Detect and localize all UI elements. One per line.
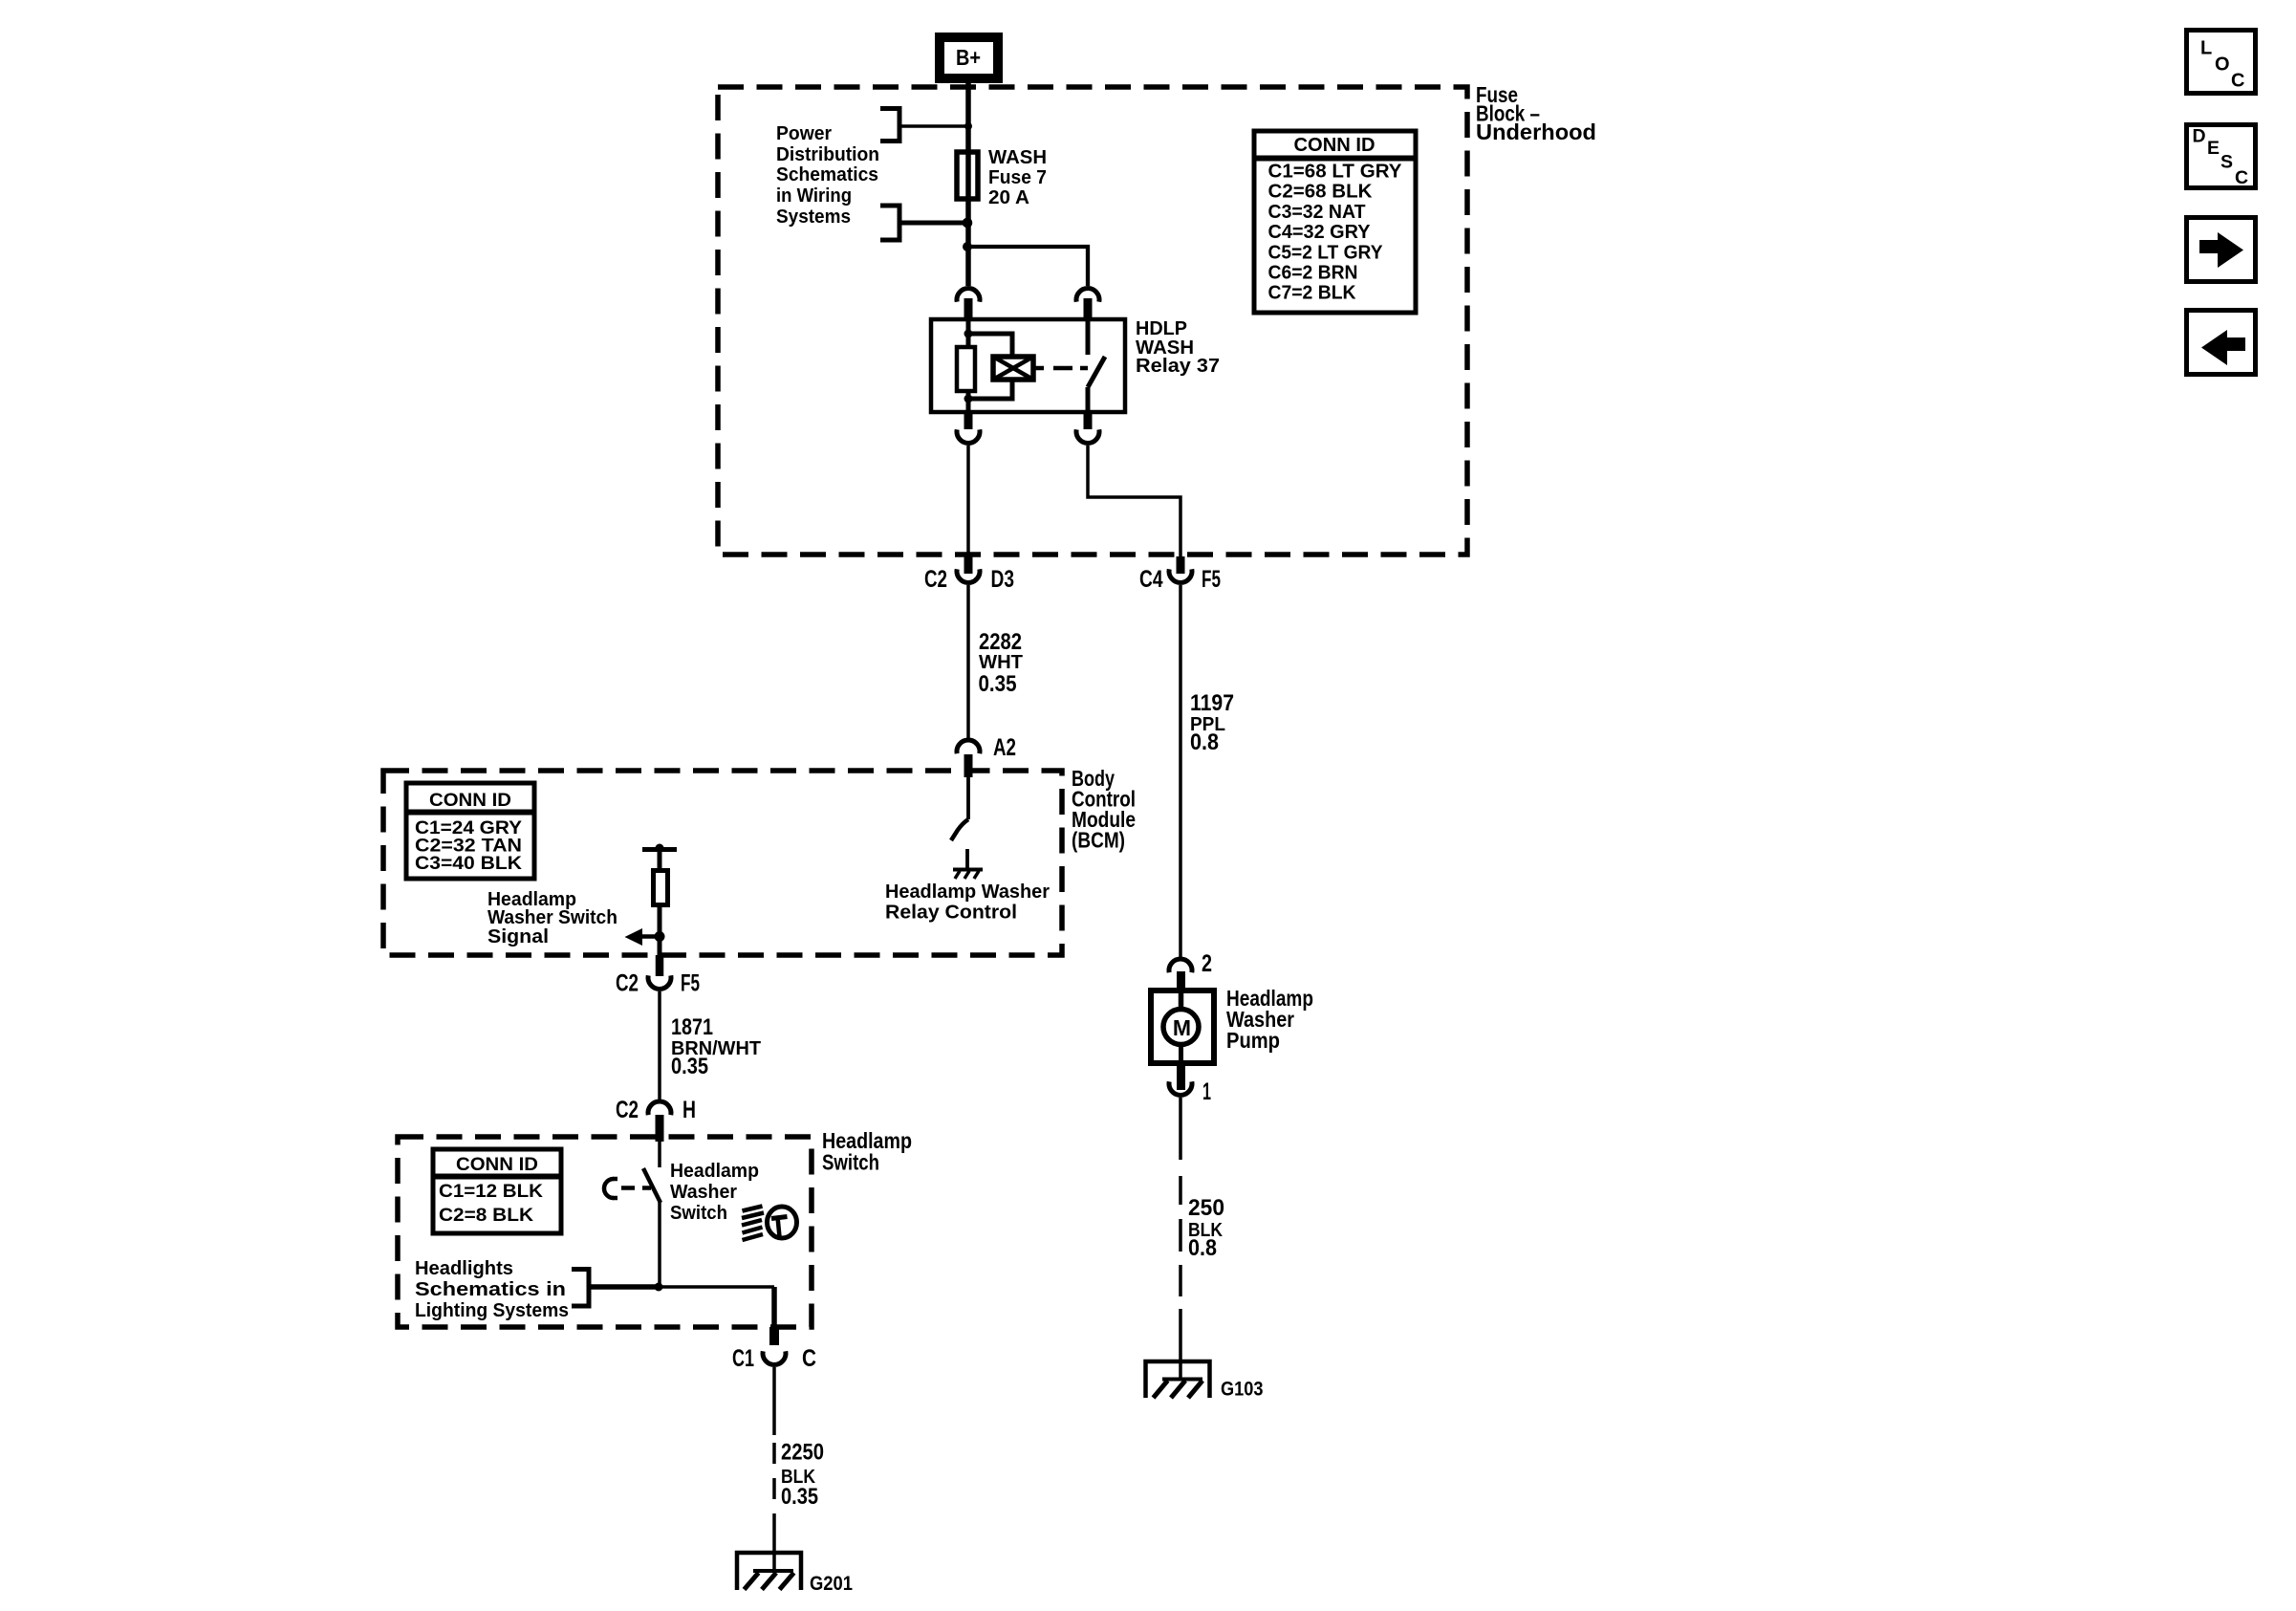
svg-text:C: C [802,1345,816,1372]
svg-text:WHT: WHT [979,651,1023,673]
svg-text:C2: C2 [616,970,639,997]
svg-text:Underhood: Underhood [1476,120,1596,144]
svg-text:CONN ID: CONN ID [1294,134,1375,156]
svg-text:C: C [2231,71,2244,92]
svg-text:F5: F5 [681,970,700,997]
svg-text:1: 1 [1202,1078,1211,1105]
svg-text:Headlamp: Headlamp [670,1160,759,1182]
svg-text:D3: D3 [991,566,1015,593]
svg-text:Lighting Systems: Lighting Systems [415,1299,569,1321]
svg-text:C3=40 BLK: C3=40 BLK [415,853,522,874]
svg-text:WASH: WASH [988,146,1047,168]
svg-text:Pump: Pump [1226,1028,1280,1053]
svg-text:Relay Control: Relay Control [885,902,1017,924]
svg-text:D: D [2193,126,2206,147]
svg-text:C2=8 BLK: C2=8 BLK [439,1205,533,1226]
svg-text:Schematics in: Schematics in [415,1278,566,1300]
svg-text:20 A: 20 A [988,186,1029,208]
svg-text:1871: 1871 [671,1014,713,1040]
svg-text:G103: G103 [1221,1379,1264,1401]
svg-text:1197: 1197 [1190,690,1234,716]
svg-text:Power: Power [776,122,832,144]
svg-text:C: C [2235,167,2248,188]
svg-text:Schematics: Schematics [776,163,878,185]
svg-text:Washer: Washer [670,1181,737,1203]
svg-text:O: O [2215,54,2230,76]
svg-text:2250: 2250 [781,1440,824,1466]
svg-text:0.8: 0.8 [1190,729,1219,755]
svg-text:Fuse 7: Fuse 7 [988,166,1047,188]
svg-text:F5: F5 [1202,566,1221,593]
svg-text:L: L [2200,38,2212,59]
svg-text:C3=32 NAT: C3=32 NAT [1268,201,1366,223]
svg-text:H: H [682,1097,696,1123]
svg-text:C2: C2 [924,566,947,593]
svg-text:C6=2 BRN: C6=2 BRN [1268,262,1358,284]
svg-text:CONN ID: CONN ID [456,1154,538,1175]
svg-text:250: 250 [1188,1195,1224,1221]
svg-text:C1: C1 [732,1345,754,1372]
svg-text:C4=32 GRY: C4=32 GRY [1268,221,1371,243]
svg-text:2: 2 [1202,950,1212,977]
svg-text:C1=68 LT GRY: C1=68 LT GRY [1268,161,1402,183]
svg-text:C1=12 BLK: C1=12 BLK [439,1181,543,1202]
svg-text:C5=2 LT GRY: C5=2 LT GRY [1268,241,1383,263]
svg-text:Headlamp Washer: Headlamp Washer [885,881,1050,903]
svg-text:C2=68 BLK: C2=68 BLK [1268,181,1373,203]
svg-text:Distribution: Distribution [776,143,879,165]
svg-text:M: M [1173,1015,1191,1040]
svg-text:0.35: 0.35 [979,671,1017,697]
svg-text:C7=2 BLK: C7=2 BLK [1268,282,1356,304]
svg-text:Systems: Systems [776,206,851,228]
svg-text:E: E [2207,138,2220,159]
svg-text:Headlights: Headlights [415,1257,513,1279]
svg-text:A2: A2 [993,734,1016,761]
svg-text:C4: C4 [1139,566,1163,593]
svg-text:Switch: Switch [670,1202,727,1224]
svg-text:0.35: 0.35 [781,1484,818,1510]
svg-text:0.8: 0.8 [1188,1235,1217,1261]
svg-text:B+: B+ [956,45,981,70]
svg-text:CONN ID: CONN ID [429,790,511,811]
svg-text:0.35: 0.35 [671,1054,708,1079]
svg-text:G201: G201 [810,1573,853,1595]
svg-text:in Wiring: in Wiring [776,185,852,207]
svg-text:S: S [2220,152,2233,173]
svg-text:C2: C2 [616,1097,639,1123]
svg-text:Signal: Signal [487,925,549,947]
svg-text:Switch: Switch [822,1150,879,1175]
svg-text:(BCM): (BCM) [1072,828,1125,853]
svg-text:Relay 37: Relay 37 [1136,355,1220,377]
